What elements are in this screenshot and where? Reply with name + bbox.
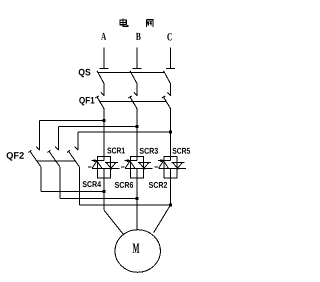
wire C from QF1 down to SCR box — [170, 109, 172, 157]
breaker QF2 pole 2 blade tick — [48, 150, 51, 152]
node return2 junction dot — [136, 197, 139, 200]
node tap2 junction dot — [136, 125, 139, 128]
label SCR1 — [107, 148, 125, 154]
switch QS pole 2 contact bar — [133, 68, 142, 70]
wire C below SCR box — [170, 178, 172, 205]
breaker QF2 pole 3 blade tick — [67, 150, 70, 152]
motor M circle — [115, 230, 160, 273]
breaker QF1 linkage — [99, 101, 166, 103]
node tap3 junction dot — [169, 131, 172, 134]
node SCR2 gate dot — [176, 167, 179, 170]
thyristor SCR1 triangle — [92, 161, 102, 168]
breaker QF1 pole 3 blade tick — [162, 96, 165, 98]
node SCR6 gate dot — [143, 167, 146, 170]
wire A from QF1 down to SCR box — [103, 109, 105, 157]
breaker QF2 linkage — [37, 160, 76, 162]
label SCR3 — [140, 148, 158, 154]
switch QS pole 1 blade — [97, 71, 104, 84]
wire motor lead A slant — [104, 210, 123, 234]
label QF1 — [79, 97, 94, 106]
wire QF2 pole 1 drop — [39, 121, 41, 150]
switch QS linkage — [98, 72, 165, 74]
label phase C — [167, 33, 172, 40]
node return3 junction dot — [169, 204, 172, 207]
thyristor SCR1 cathode bar — [92, 160, 104, 162]
label QF2 — [7, 152, 24, 161]
breaker QF1 pole 1 contact tick — [101, 92, 105, 96]
wire bypass tap 2 horizontal — [59, 126, 138, 128]
thyristor SCR5 top stub — [170, 156, 172, 160]
thyristor module box phase B — [131, 156, 144, 178]
breaker QF1 pole 2 blade tick — [128, 96, 131, 98]
label power-grid character 网 — [146, 20, 153, 27]
thyristor pair bottom bar with SCR6 gate lead — [125, 167, 153, 169]
label phase A — [101, 33, 106, 40]
breaker QF2 pole 2 contact tick — [55, 147, 59, 151]
thyristor pair bottom bar with SCR4 gate lead — [92, 167, 120, 169]
label M — [133, 244, 140, 253]
switch QS pole 3 blade — [164, 71, 171, 84]
wire bypass tap 3 horizontal — [78, 131, 171, 133]
wire QF2 return 1 horizontal — [41, 191, 104, 193]
wire QF2 pole 2 drop — [58, 127, 60, 150]
thyristor SCR5 triangle — [159, 161, 169, 168]
label SCR6 — [115, 182, 133, 188]
label power-grid character 电 — [120, 18, 128, 26]
thyristor SCR2 triangle — [173, 163, 183, 169]
wire motor lead C slant — [154, 205, 171, 233]
thyristor SCR2 anode line — [172, 161, 185, 163]
thyristor SCR6 anode line — [138, 161, 151, 163]
wire B from QF1 down to SCR box — [136, 109, 138, 157]
switch QS pole 3 contact bar — [166, 68, 175, 70]
wire QF2 return 3 drop — [79, 167, 81, 205]
wire QF2 return 3 horizontal — [80, 204, 171, 206]
thyristor SCR6 bottom stub — [136, 168, 138, 178]
wire B below SCR box — [136, 178, 138, 230]
breaker QF2 pole 2 blade — [49, 151, 60, 167]
thyristor SCR3 triangle — [125, 161, 135, 168]
label SCR4 — [83, 181, 102, 187]
breaker QF1 pole 2 contact tick — [134, 92, 138, 96]
breaker QF2 pole 1 contact tick — [36, 147, 40, 151]
thyristor SCR3 top stub — [136, 156, 138, 160]
wire QF2 return 2 horizontal — [60, 198, 137, 200]
wire phase C feed — [170, 48, 172, 69]
label SCR2 — [149, 182, 167, 188]
wire B between QS and QF1 — [136, 84, 138, 96]
wire QF2 pole 3 drop — [77, 132, 79, 150]
thyristor SCR1 top stub — [103, 156, 105, 160]
thyristor pair bottom bar with SCR2 gate lead — [159, 167, 187, 169]
wire A below SCR box — [103, 178, 105, 210]
label SCR5 — [172, 148, 190, 154]
thyristor module box phase A — [98, 156, 111, 178]
node SCR5 gate dot — [160, 159, 163, 162]
thyristor SCR4 triangle — [106, 163, 116, 169]
thyristor SCR4 bottom stub — [103, 168, 105, 178]
label phase B — [136, 33, 141, 40]
node SCR4 gate dot — [110, 167, 113, 170]
thyristor SCR5 cathode bar — [158, 160, 170, 162]
wire phase A feed — [103, 48, 105, 69]
node tap1 junction dot — [103, 119, 106, 122]
thyristor SCR4 anode line — [105, 161, 118, 163]
thyristor module box phase C — [164, 156, 177, 178]
breaker QF2 pole 3 blade — [69, 151, 80, 167]
breaker QF1 pole 1 blade — [97, 97, 104, 109]
thyristor SCR1 gate lead — [88, 166, 91, 168]
breaker QF1 pole 3 blade — [164, 97, 171, 109]
thyristor SCR2 bottom stub — [170, 168, 172, 178]
node SCR1 gate dot — [93, 159, 96, 162]
thyristor SCR5 gate lead — [155, 166, 158, 168]
breaker QF2 pole 1 blade — [30, 151, 41, 167]
node SCR3 gate dot — [126, 159, 129, 162]
breaker QF2 pole 1 blade tick — [29, 150, 32, 152]
wire C between QS and QF1 — [170, 84, 172, 96]
label QS — [79, 69, 91, 78]
breaker QF1 pole 1 blade tick — [95, 96, 98, 98]
thyristor SCR6 triangle — [139, 163, 149, 169]
wire QF2 return 1 drop — [40, 167, 42, 192]
thyristor SCR3 gate lead — [121, 166, 124, 168]
wire A between QS and QF1 — [103, 84, 105, 96]
switch QS pole 2 blade — [130, 71, 137, 84]
breaker QF2 pole 3 contact tick — [75, 147, 79, 151]
thyristor SCR3 cathode bar — [125, 160, 137, 162]
breaker QF1 pole 3 contact tick — [167, 92, 171, 96]
wire QF2 return 2 drop — [59, 167, 61, 199]
switch QS pole 1 contact bar — [100, 68, 109, 70]
wire bypass tap 1 horizontal — [40, 120, 105, 122]
node return1 junction dot — [103, 190, 106, 193]
breaker QF1 pole 2 blade — [130, 97, 137, 109]
wire phase B feed — [136, 48, 138, 69]
